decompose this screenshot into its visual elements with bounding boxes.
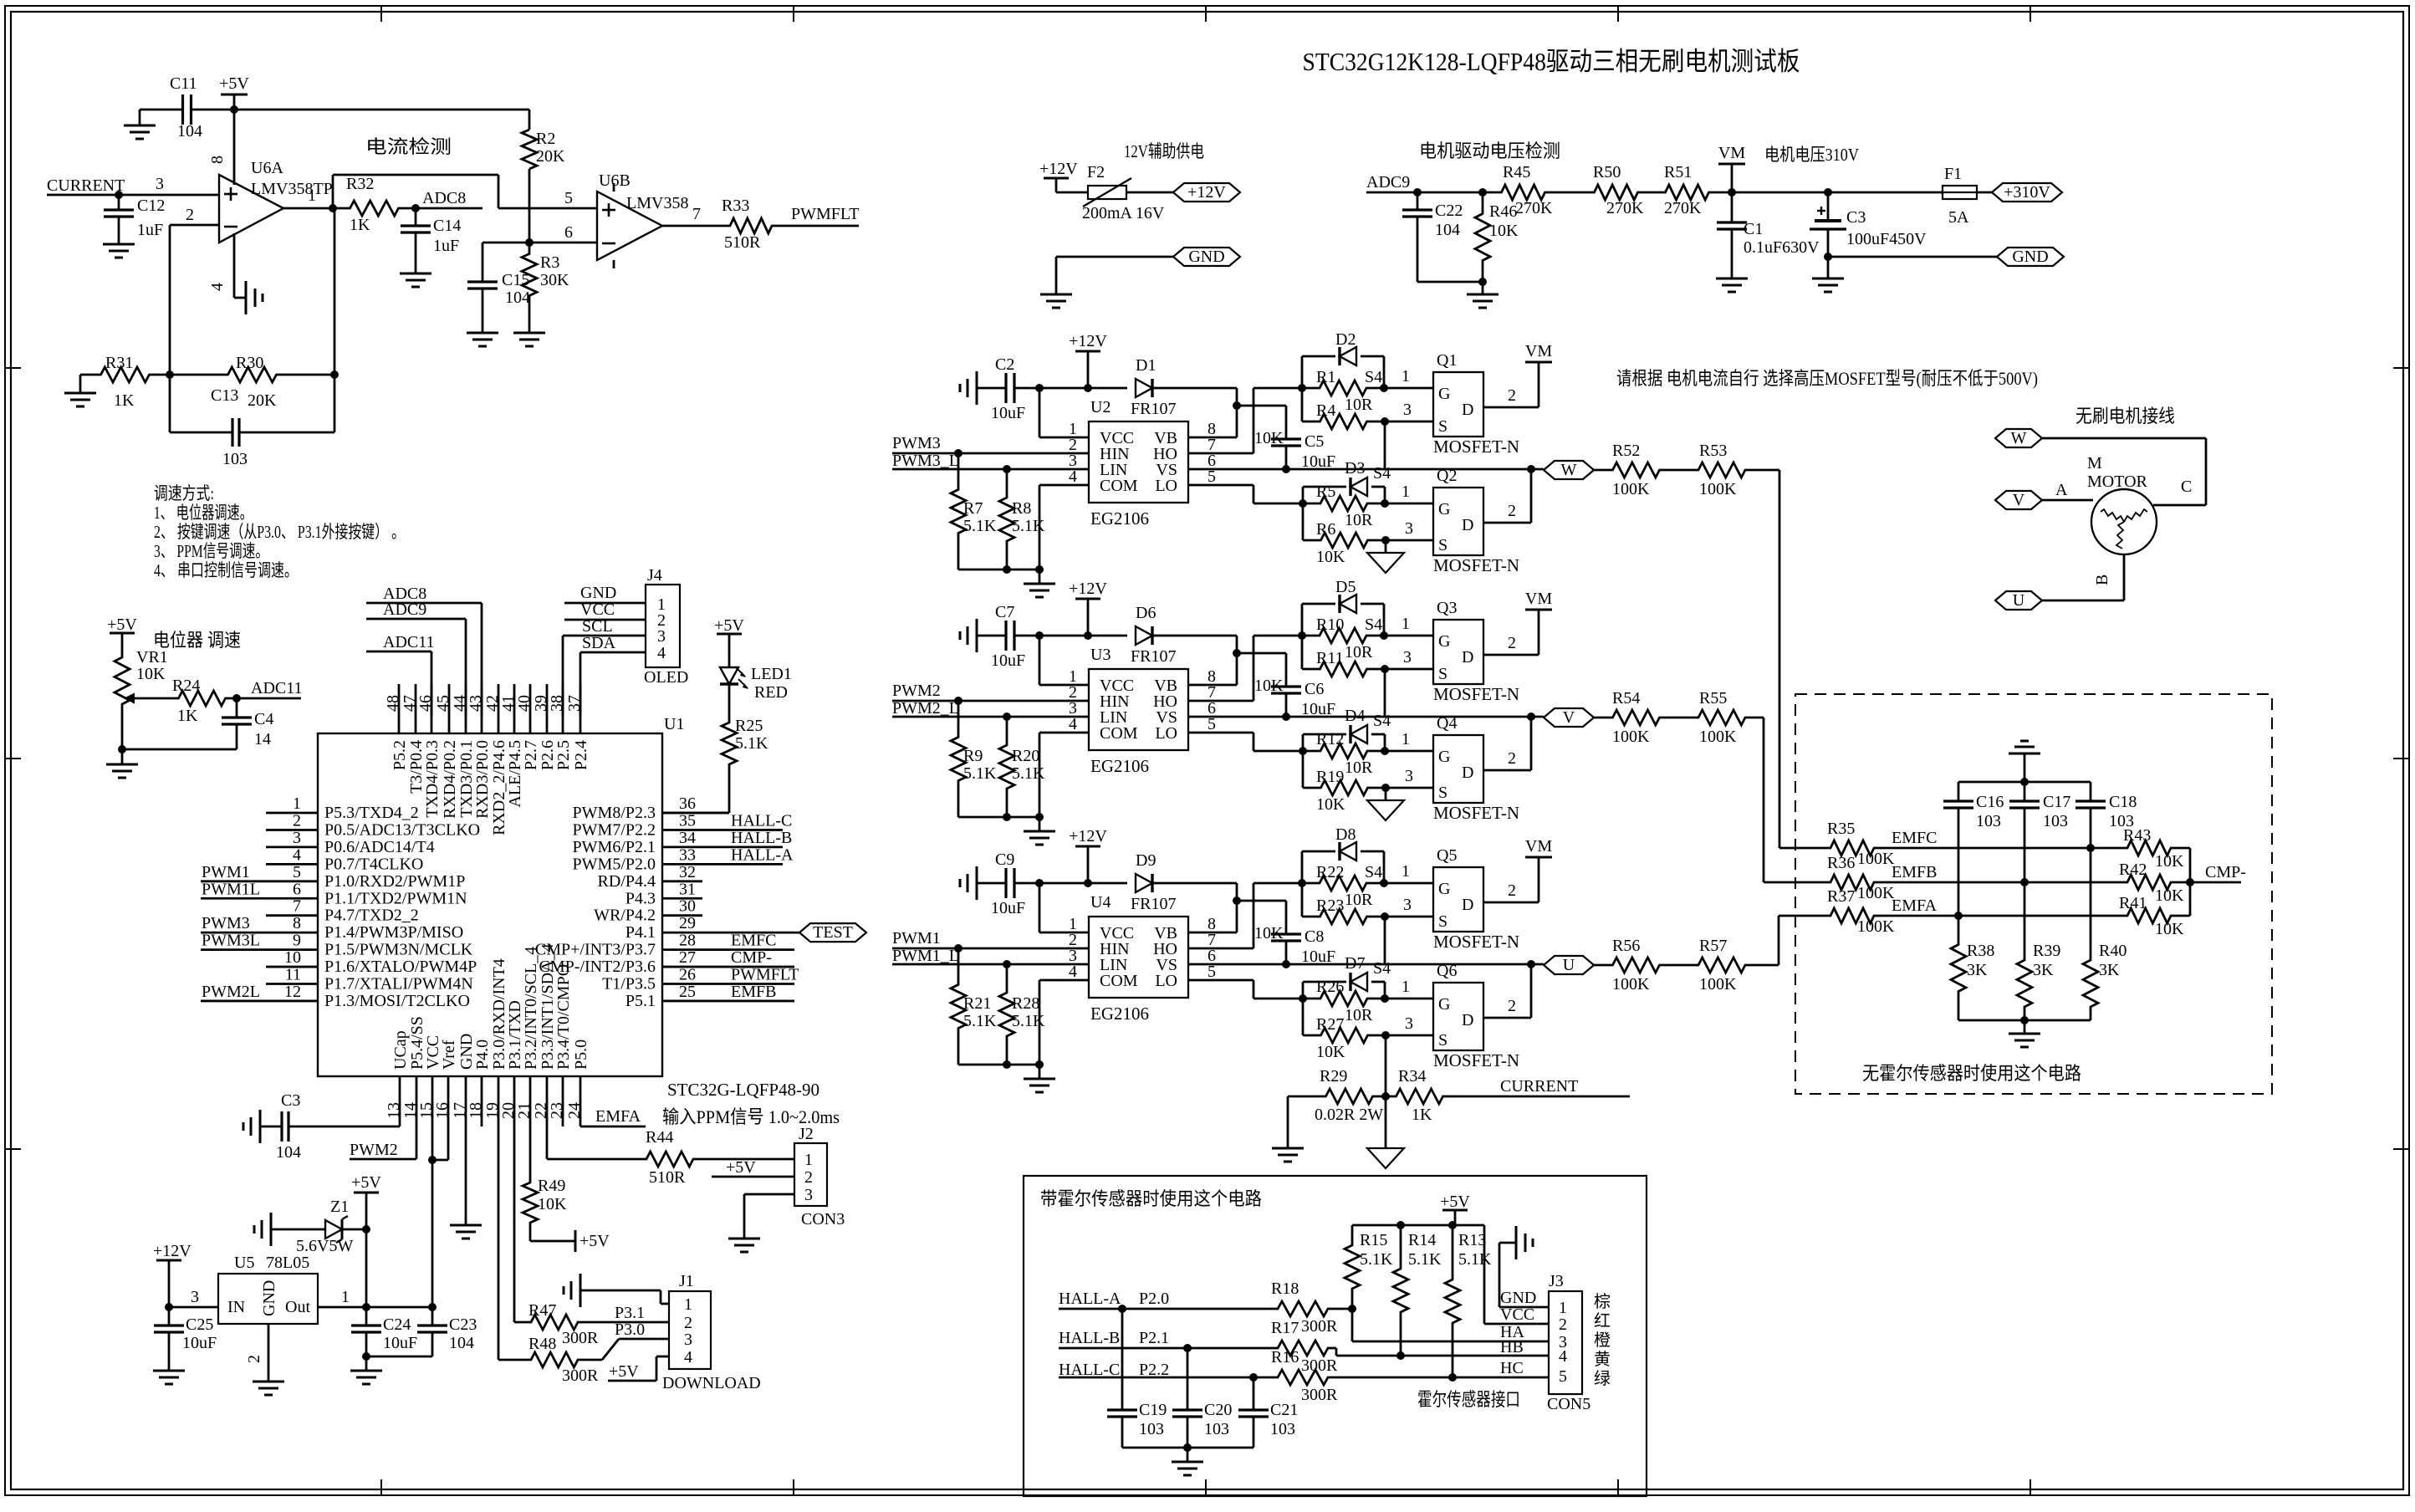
svg-text:红: 红 — [1594, 1311, 1611, 1331]
svg-text:CON3: CON3 — [801, 1210, 845, 1228]
svg-text:100K: 100K — [1699, 480, 1737, 498]
ground for C25 — [153, 1370, 185, 1372]
svg-text:1K: 1K — [177, 707, 198, 725]
svg-text:2: 2 — [293, 811, 301, 830]
svg-text:S: S — [1438, 784, 1447, 802]
resistor R42 10K — [2123, 875, 2175, 890]
wire U to motor B — [2042, 600, 2124, 602]
resistor R33 510R — [728, 218, 774, 233]
svg-text:100K: 100K — [1857, 850, 1895, 868]
svg-text:29: 29 — [679, 914, 696, 932]
svg-text:10R: 10R — [1345, 759, 1373, 777]
svg-text:12V辅助供电: 12V辅助供电 — [1124, 141, 1204, 161]
ground for C11 — [139, 110, 141, 125]
wire hall caps bottom — [1122, 1447, 1253, 1449]
wire LO pin5 to low gate bus — [1188, 732, 1253, 734]
svg-text:R26: R26 — [1316, 978, 1344, 996]
ground for Z1 rotated — [270, 1213, 273, 1246]
svg-text:2: 2 — [186, 206, 194, 224]
svg-text:MOSFET-N: MOSFET-N — [1433, 684, 1519, 704]
svg-text:C16: C16 — [1976, 793, 2004, 811]
svg-text:12: 12 — [284, 983, 301, 1001]
svg-text:J3: J3 — [1549, 1272, 1564, 1290]
motor M MOTOR circle — [2091, 489, 2157, 554]
svg-text:EMFA: EMFA — [595, 1107, 641, 1126]
wire +5V rail to R2 — [234, 109, 529, 111]
node R14 top — [1396, 1221, 1405, 1229]
svg-text:10R: 10R — [1345, 891, 1373, 909]
wire Q2 drain to VS — [1483, 522, 1531, 524]
MOSFET Q1 — [1433, 372, 1483, 437]
capacitor C-boot 10uF U2 — [1271, 437, 1301, 440]
wire D1 to VB corner — [1152, 387, 1237, 390]
pin 43 RXD3/P0.0 top stub — [481, 684, 483, 733]
node C19 — [1118, 1305, 1126, 1313]
svg-text:Q3: Q3 — [1437, 599, 1457, 617]
svg-text:5.1K: 5.1K — [1012, 764, 1045, 783]
svg-text:2: 2 — [245, 1355, 263, 1363]
wire V to motor A — [2042, 499, 2093, 502]
connector J2 CON3 — [794, 1143, 827, 1206]
svg-text:3、 PPM信号调速。: 3、 PPM信号调速。 — [154, 541, 268, 561]
svg-text:GND: GND — [260, 1280, 278, 1316]
diode D8 across R — [1301, 851, 1304, 883]
pin 35 PWM7/P2.2 right — [662, 829, 783, 831]
svg-text:RD/P4.4: RD/P4.4 — [598, 872, 656, 891]
svg-text:48: 48 — [384, 695, 402, 712]
svg-text:WR/P4.2: WR/P4.2 — [594, 907, 656, 925]
svg-text:C3: C3 — [281, 1091, 300, 1110]
svg-text:S: S — [1438, 912, 1447, 931]
net PWMFLT — [774, 225, 859, 227]
svg-text:32: 32 — [679, 863, 696, 881]
node C-boot to VS — [1282, 713, 1290, 721]
resistor R35 100K emfc — [1828, 840, 1876, 856]
IC U3 EG2106 body — [1089, 669, 1188, 750]
pin 26 T1/P3.5 right — [662, 983, 794, 985]
svg-text:S4: S4 — [1365, 616, 1382, 634]
svg-text:2: 2 — [1508, 749, 1516, 768]
svg-text:COM: COM — [1100, 972, 1138, 990]
svg-text:104: 104 — [276, 1143, 301, 1162]
svg-text:R38: R38 — [1967, 942, 1994, 960]
wire W to motor C — [2042, 437, 2206, 440]
svg-text:C: C — [2181, 478, 2192, 496]
pin 27 CMP-/INT2/P3.6 right — [662, 966, 794, 968]
dashed box sensorless circuit — [1795, 694, 2272, 1094]
node Out/C24/Z1 — [362, 1303, 370, 1311]
svg-text:调速方式:: 调速方式: — [154, 483, 214, 503]
svg-text:R50: R50 — [1593, 163, 1621, 181]
motor windings Y — [2101, 509, 2124, 522]
op-amp U6B LMV358 — [597, 192, 662, 260]
wire F1 to +310V flag — [1977, 192, 1992, 194]
svg-text:40: 40 — [515, 695, 534, 712]
node R30/C13 right — [330, 370, 339, 379]
pin 39 P2.6 top stub — [546, 684, 549, 733]
svg-text:MOTOR: MOTOR — [2087, 472, 2148, 491]
pin 31 P4.3 right — [662, 897, 702, 900]
node CURRENT / C12 — [115, 191, 123, 199]
svg-text:10K: 10K — [1489, 222, 1519, 240]
svg-text:电机电压310V: 电机电压310V — [1764, 145, 1859, 165]
svg-text:26: 26 — [679, 966, 696, 984]
wire R41 to CMP bus — [2175, 915, 2190, 917]
svg-text:R9: R9 — [963, 747, 983, 765]
svg-text:W: W — [2011, 429, 2027, 447]
wire C23 bottom to C24 bottom — [366, 1356, 432, 1358]
node CMP- — [2186, 878, 2194, 886]
svg-text:MOSFET-N: MOSFET-N — [1433, 803, 1519, 823]
svg-text:3: 3 — [1403, 401, 1412, 419]
svg-text:10uF: 10uF — [991, 899, 1025, 917]
op-amp U6A LMV358TP — [219, 175, 283, 243]
svg-text:R8: R8 — [1012, 499, 1031, 518]
resistor R55 100K — [1662, 717, 1697, 719]
node gate bus top U3 — [1298, 631, 1306, 640]
wire Q4 drain to VS — [1483, 769, 1531, 772]
resistor R20 5.1K — [999, 717, 1014, 817]
ground Q2 source triangle — [1385, 540, 1387, 553]
svg-text:R12: R12 — [1316, 730, 1344, 748]
pin 8 stub U6A to +5V — [233, 110, 236, 185]
svg-text:HALL-A: HALL-A — [731, 845, 794, 864]
svg-text:0.1uF630V: 0.1uF630V — [1744, 238, 1820, 257]
svg-text:R5: R5 — [1316, 483, 1335, 501]
svg-text:C17: C17 — [2043, 793, 2070, 811]
svg-text:R11: R11 — [1316, 649, 1344, 667]
svg-text:PWM7/P2.2: PWM7/P2.2 — [573, 820, 656, 839]
svg-text:300R: 300R — [562, 1366, 599, 1385]
net flag W phase — [1544, 461, 1594, 479]
node Z1/+5V — [362, 1225, 370, 1234]
wire Q3 source to VS line — [1384, 669, 1386, 718]
resistor R17 300R — [1274, 1341, 1331, 1356]
node bootstrap branch — [1233, 896, 1241, 905]
capacitor C22 104 — [1417, 192, 1419, 210]
svg-text:SCL: SCL — [582, 617, 613, 636]
svg-text:10R: 10R — [1345, 1006, 1373, 1024]
svg-text:P1.6/XTALO/PWM4P: P1.6/XTALO/PWM4P — [324, 958, 477, 976]
svg-text:PWM3: PWM3 — [202, 914, 250, 932]
svg-text:27: 27 — [679, 948, 696, 967]
resistor R9 5.1K — [951, 701, 966, 817]
node R14 bottom — [1396, 1351, 1405, 1360]
svg-text:C6: C6 — [1305, 680, 1324, 698]
svg-text:300R: 300R — [562, 1329, 599, 1347]
svg-text:橙: 橙 — [1594, 1331, 1611, 1350]
svg-text:270K: 270K — [1664, 199, 1702, 217]
svg-text:R17: R17 — [1271, 1319, 1299, 1337]
svg-text:MOSFET-N: MOSFET-N — [1433, 932, 1519, 952]
svg-text:3K: 3K — [1967, 961, 1988, 979]
svg-text:MOSFET-N: MOSFET-N — [1433, 1050, 1519, 1070]
svg-text:CURRENT: CURRENT — [1500, 1077, 1578, 1096]
wire VB pin8 — [1188, 684, 1237, 687]
resistor R44 510R ppm — [547, 1158, 643, 1161]
power VM Q5 — [1525, 856, 1552, 859]
wire +12V to U5 IN — [169, 1306, 218, 1309]
svg-text:ADC11: ADC11 — [251, 679, 302, 697]
diode D7 across R — [1302, 982, 1305, 999]
node ADC9/C22 — [1413, 188, 1422, 197]
svg-text:270K: 270K — [1515, 199, 1553, 217]
svg-text:R27: R27 — [1316, 1015, 1344, 1034]
node C7/+12V rail — [1035, 631, 1044, 640]
svg-text:+5V: +5V — [107, 616, 137, 634]
svg-text:D8: D8 — [1335, 825, 1356, 844]
connector J3 CON5 — [1549, 1291, 1582, 1394]
wire pin 14 down — [416, 1076, 418, 1159]
wire HA to J3 pin3 — [1351, 1309, 1354, 1341]
capacitor C-boot 10uF U3 — [1271, 685, 1301, 687]
resistor R24 1K — [167, 691, 237, 706]
svg-text:Out: Out — [285, 1298, 310, 1316]
resistor R18 300R — [1274, 1301, 1331, 1316]
pin 34 PWM6/P2.1 right — [662, 846, 783, 849]
svg-text:P4.7/TXD2_2: P4.7/TXD2_2 — [324, 907, 419, 925]
wire 3K bottoms — [1958, 1019, 2091, 1022]
svg-text:CURRENT: CURRENT — [47, 176, 125, 195]
svg-text:3: 3 — [1403, 648, 1412, 667]
svg-text:2: 2 — [1559, 1315, 1567, 1334]
wire R51 to VM node — [1712, 192, 1732, 194]
svg-text:3K: 3K — [2033, 961, 2054, 979]
svg-text:C7: C7 — [995, 603, 1014, 621]
pin 11 P1.7/XTALI/PWM4N left — [266, 983, 318, 985]
capacitor C2 10uF — [977, 387, 1006, 390]
resistor R39 3K — [2017, 947, 2032, 1020]
resistor R15 5.1K — [1345, 1225, 1360, 1309]
svg-text:HALL-B: HALL-B — [731, 829, 792, 847]
ground pin17 GND — [450, 1224, 482, 1227]
svg-text:ADC11: ADC11 — [383, 633, 434, 651]
svg-text:20K: 20K — [248, 391, 277, 410]
svg-text:C12: C12 — [137, 197, 165, 215]
wire pin 15 down — [431, 1076, 434, 1307]
net EMFA wire pin24 — [580, 1126, 646, 1128]
fuse F2 200mA 16V — [1056, 192, 1088, 194]
net flag +310V — [1992, 183, 2062, 202]
svg-text:+12V: +12V — [1069, 332, 1107, 350]
svg-text:P1.7/XTALI/PWM4N: P1.7/XTALI/PWM4N — [324, 975, 473, 994]
svg-text:R25: R25 — [735, 717, 763, 735]
svg-text:PWM2: PWM2 — [892, 682, 941, 700]
svg-text:1: 1 — [1402, 483, 1410, 501]
svg-text:MOSFET-N: MOSFET-N — [1433, 437, 1519, 457]
svg-text:D: D — [1462, 896, 1473, 914]
svg-text:COM: COM — [1100, 477, 1138, 495]
svg-text:+12V: +12V — [1039, 160, 1078, 178]
resistor R19 10K low GS — [1302, 751, 1305, 788]
svg-text:10R: 10R — [1345, 511, 1373, 529]
svg-text:C24: C24 — [383, 1315, 411, 1334]
svg-text:R56: R56 — [1612, 937, 1640, 955]
svg-text:1K: 1K — [114, 391, 135, 410]
svg-text:PWM2: PWM2 — [350, 1141, 398, 1159]
wire pin 21 down — [529, 1076, 532, 1179]
wire VB pin8 — [1188, 932, 1237, 934]
svg-text:1: 1 — [1559, 1299, 1567, 1317]
ground J2 — [728, 1238, 760, 1240]
resistor R27 10K low GS — [1302, 999, 1305, 1035]
svg-text:ADC8: ADC8 — [422, 189, 466, 207]
power VM sense — [1731, 164, 1733, 192]
svg-text:1: 1 — [1402, 367, 1410, 386]
svg-text:请根据 电机电流自行 选择高压MOSFET型号(耐压不低于5: 请根据 电机电流自行 选择高压MOSFET型号(耐压不低于500V) — [1616, 368, 2038, 389]
capacitor C20 103 — [1187, 1348, 1189, 1410]
resistor R57 100K — [1662, 964, 1697, 967]
svg-text:3: 3 — [293, 829, 301, 847]
svg-text:4: 4 — [1559, 1347, 1567, 1366]
svg-text:HALL-B: HALL-B — [1059, 1329, 1120, 1347]
svg-text:R19: R19 — [1316, 768, 1344, 786]
node C16/EMFA — [1954, 912, 1963, 920]
node source Q6 — [1381, 1031, 1390, 1039]
wire branch to C-boot — [1237, 900, 1286, 902]
wire branch to C-boot — [1237, 652, 1286, 655]
svg-text:C3: C3 — [1846, 208, 1866, 227]
svg-text:EMFC: EMFC — [1892, 829, 1937, 847]
svg-text:25: 25 — [679, 983, 696, 1001]
svg-text:COM: COM — [1100, 724, 1138, 743]
node C21 — [1249, 1373, 1258, 1382]
pin 36 PWM8/P2.3 right — [662, 812, 729, 815]
pin 4 P0.7/T4CLKO left — [266, 863, 318, 866]
node shunt junction — [1381, 1092, 1390, 1101]
resistor R34 1K current — [1386, 1089, 1453, 1104]
resistor R1 10R top gate — [1302, 381, 1384, 396]
svg-text:300R: 300R — [1301, 1386, 1338, 1404]
node R2/R3/pin6 — [525, 238, 534, 247]
svg-text:LO: LO — [1155, 724, 1177, 743]
svg-text:电流检测: 电流检测 — [365, 136, 452, 157]
ground for R3 — [513, 332, 545, 335]
wire V sense down to EMFB — [1763, 718, 1765, 882]
svg-text:R39: R39 — [2033, 942, 2060, 960]
wire VCC pin1 U2 — [1039, 437, 1089, 439]
svg-text:100K: 100K — [1857, 884, 1895, 902]
svg-text:S4: S4 — [1373, 959, 1391, 978]
svg-text:PWM1: PWM1 — [892, 929, 941, 948]
svg-text:F1: F1 — [1944, 165, 1962, 183]
pin 38 P2.5 top stub — [562, 684, 564, 733]
wire pin 24 down — [579, 1076, 582, 1126]
resistor R26 10R low gate — [1303, 991, 1385, 1006]
svg-text:10K: 10K — [1316, 795, 1345, 814]
svg-text:P4.0: P4.0 — [473, 1039, 492, 1070]
node low gate bus U3 — [1299, 747, 1307, 755]
svg-text:1: 1 — [1402, 615, 1410, 633]
svg-text:R1: R1 — [1316, 368, 1335, 386]
wire LO pin5 to low gate bus — [1188, 484, 1253, 487]
svg-text:10K: 10K — [1316, 548, 1345, 566]
svg-text:PWMFLT: PWMFLT — [791, 205, 860, 223]
svg-text:EMFC: EMFC — [731, 932, 776, 950]
svg-text:R29: R29 — [1320, 1067, 1347, 1085]
pin 9 P1.5/PWM3N/MCLK left — [201, 948, 318, 951]
resistor R6 10K low GS — [1302, 503, 1305, 540]
svg-text:U: U — [1563, 956, 1575, 974]
svg-text:103: 103 — [1204, 1420, 1229, 1438]
pin 42 RXD2_2/P4.6 top stub — [498, 684, 500, 733]
svg-text:2: 2 — [1508, 997, 1516, 1015]
resistor R54 100K — [1594, 717, 1610, 719]
svg-text:+12V: +12V — [1069, 580, 1107, 598]
ground for C3 — [1827, 257, 1830, 278]
wire VCC pin1 U3 — [1039, 684, 1089, 687]
resistor R2 20K vertical — [528, 110, 531, 130]
node C18/EMFC — [2086, 844, 2095, 852]
svg-text:C15: C15 — [502, 271, 529, 289]
resistor R22 10R top gate — [1302, 876, 1384, 891]
svg-text:10R: 10R — [1345, 643, 1373, 661]
net flag +12V — [1173, 183, 1240, 202]
wire VM node to C3 node — [1732, 192, 1828, 194]
ground for C14 — [400, 273, 431, 275]
capacitor C19 103 — [1121, 1309, 1124, 1410]
capacitor C15 104 — [467, 280, 498, 283]
wire U6A pin2 to feedback node — [170, 224, 219, 227]
wire HO pin7 to gate bus — [1188, 452, 1253, 455]
svg-text:3K: 3K — [2099, 961, 2120, 979]
svg-text:PWM1L: PWM1L — [202, 880, 260, 898]
svg-text:FR107: FR107 — [1131, 647, 1176, 666]
node gate Q2 — [1381, 499, 1389, 508]
wire D6 to VB corner — [1152, 635, 1237, 637]
svg-text:EG2106: EG2106 — [1090, 1004, 1149, 1024]
svg-text:510R: 510R — [649, 1168, 686, 1187]
wire pin 20 down — [513, 1076, 516, 1322]
svg-text:P4.1: P4.1 — [625, 923, 656, 942]
svg-text:HALL-A: HALL-A — [1059, 1290, 1121, 1308]
svg-text:绿: 绿 — [1594, 1369, 1611, 1388]
pin 10 P1.6/XTALO/PWM4P left — [266, 966, 318, 968]
resistor R46 10K vertical — [1475, 192, 1490, 282]
svg-text:10: 10 — [284, 948, 301, 967]
capacitor C-boot 10uF U4 — [1271, 932, 1301, 935]
node C3 top — [1824, 188, 1832, 197]
wire VB pin8 — [1188, 437, 1237, 439]
svg-text:R4: R4 — [1316, 401, 1335, 420]
node source Q4 — [1381, 784, 1390, 792]
VS line U4 to flag U — [1188, 963, 1544, 966]
op-amp U6A output pin1 — [283, 207, 333, 210]
resistor R3 30K vertical — [522, 243, 537, 307]
pin 47 T3/P0.4 top stub — [415, 684, 417, 733]
svg-text:5.1K: 5.1K — [1012, 517, 1045, 535]
ground for J1 pin1 rotated — [579, 1274, 582, 1307]
svg-text:R7: R7 — [963, 499, 983, 518]
node source Q2 — [1381, 536, 1390, 544]
svg-text:B: B — [2093, 575, 2111, 585]
svg-text:4: 4 — [684, 1348, 692, 1366]
wire U5 Out to +5V node — [318, 1306, 435, 1309]
svg-text:300R: 300R — [1301, 1317, 1338, 1336]
resistor R14 5.1K — [1393, 1225, 1408, 1356]
svg-text:S4: S4 — [1373, 464, 1391, 483]
svg-text:35: 35 — [679, 811, 696, 830]
pin 48 P5.2 top stub — [398, 684, 401, 733]
node C20 — [1183, 1344, 1192, 1352]
svg-text:PWM3: PWM3 — [892, 434, 941, 452]
capacitor C21 103 — [1253, 1377, 1255, 1410]
wire COM pin4 U4 — [1039, 979, 1089, 982]
resistor R7 5.1K — [951, 453, 966, 570]
svg-text:P0.5/ADC13/T3CLKO: P0.5/ADC13/T3CLKO — [324, 820, 480, 839]
svg-text:4: 4 — [657, 644, 666, 662]
svg-text:R45: R45 — [1503, 163, 1530, 181]
